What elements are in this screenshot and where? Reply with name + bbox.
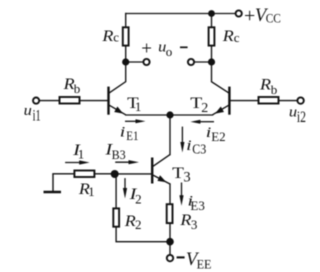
label -VEE: [177, 250, 212, 271]
node junction dot bottom rail: [166, 238, 174, 246]
current arrow iE1: [125, 119, 146, 123]
resistor Rb (left): [60, 97, 80, 104]
label T1: [127, 93, 141, 114]
wire T2 base to Rb: [230, 100, 257, 102]
label T2: [190, 93, 208, 116]
svg-text:c: c: [234, 30, 240, 45]
svg-text:1: 1: [135, 99, 142, 114]
svg-text:E2: E2: [211, 129, 225, 144]
node junction dot common emitters: [166, 111, 173, 118]
svg-text:i: i: [186, 138, 192, 154]
label R2: [124, 211, 142, 232]
node junction dot right collector: [208, 58, 215, 65]
current arrow I1: [65, 160, 90, 164]
svg-text:R: R: [101, 26, 113, 45]
wire R3 bottom to rail node: [169, 224, 171, 242]
svg-text:i: i: [120, 124, 126, 140]
label iE2: [206, 125, 226, 144]
current arrow IB3: [115, 160, 139, 164]
wire node A to T3 base: [115, 173, 152, 175]
wire T2 collector: [212, 62, 229, 93]
current arrow iC3: [180, 127, 184, 153]
svg-text:CC: CC: [266, 10, 281, 25]
svg-text:u: u: [289, 105, 297, 121]
label +VCC: [244, 5, 281, 27]
terminal +VCC: [236, 10, 242, 16]
wire ground to R1: [53, 173, 73, 175]
svg-text:u: u: [24, 103, 32, 119]
svg-text:o: o: [166, 44, 173, 59]
terminal -VEE: [167, 255, 173, 261]
wire right Rc bottom lead: [211, 46, 213, 62]
svg-text:i2: i2: [297, 109, 306, 126]
transistor T2: [213, 87, 230, 115]
resistor Rc (left): [123, 27, 129, 45]
svg-text:3: 3: [191, 217, 198, 232]
terminal uo minus: [188, 59, 194, 65]
label ui2: [289, 105, 306, 127]
label iE3: [188, 194, 205, 214]
label Rb right: [259, 74, 277, 97]
resistor R1: [74, 171, 94, 178]
terminal ui2: [297, 97, 303, 103]
svg-text:2: 2: [201, 101, 208, 116]
wire Rb to ui2 terminal: [279, 100, 297, 102]
ground: [44, 174, 62, 192]
svg-text:1: 1: [78, 146, 85, 161]
svg-text:E3: E3: [190, 198, 204, 213]
transistor T3: [152, 155, 170, 184]
label ui1: [24, 103, 41, 125]
svg-text:B3: B3: [112, 147, 126, 162]
resistor Rc (right): [209, 27, 215, 45]
label Rb left: [62, 74, 80, 96]
terminal uo plus: [143, 59, 149, 65]
terminal ui1: [33, 98, 39, 104]
wire left Rc top lead: [125, 14, 127, 28]
wire R1 to node A: [95, 173, 114, 175]
svg-text:R: R: [222, 26, 234, 45]
svg-text:b: b: [271, 82, 278, 97]
label I2: [128, 184, 141, 207]
wire T1 emitter to common node: [126, 114, 170, 116]
svg-text:C3: C3: [192, 143, 206, 158]
wire right output tap: [194, 61, 212, 63]
svg-text:2: 2: [135, 217, 142, 232]
label uo: [158, 40, 172, 59]
svg-text:c: c: [113, 30, 119, 45]
node junction dot left collector: [122, 58, 129, 65]
label IB3: [104, 140, 126, 163]
label T3: [172, 163, 190, 186]
svg-text:1: 1: [88, 184, 95, 199]
wire Rb to T1 base: [80, 100, 107, 102]
svg-text:T: T: [172, 163, 184, 182]
resistor Rb (right): [259, 97, 279, 104]
current arrow iE2: [190, 120, 214, 124]
node junction dot on top rail: [208, 10, 215, 17]
wire top rail: [126, 13, 236, 15]
svg-text:+: +: [141, 39, 152, 60]
label R1: [78, 179, 95, 199]
wire node A down to R2: [115, 174, 117, 208]
wire common node down to T3 collector: [169, 115, 171, 155]
svg-text:R: R: [179, 210, 191, 229]
svg-text:E1: E1: [126, 128, 138, 143]
current arrow iE3: [179, 183, 183, 206]
svg-text:R: R: [259, 74, 271, 93]
label R3: [179, 210, 197, 232]
label iE1: [120, 124, 139, 143]
svg-text:2: 2: [135, 192, 142, 207]
label Rc right: [222, 26, 240, 45]
wire VEE terminal lead: [169, 242, 171, 255]
resistor R3: [167, 204, 173, 223]
current arrow I2: [123, 178, 127, 198]
wire T3 emitter down to R3: [169, 184, 171, 204]
label iC3: [186, 138, 206, 158]
svg-text:+: +: [244, 5, 255, 27]
wire T1 collector: [109, 62, 126, 93]
node A junction dot at T3 base: [111, 170, 119, 178]
wire left output tap: [126, 61, 144, 63]
wire ui1 terminal to Rb: [39, 100, 58, 102]
svg-text:i1: i1: [33, 108, 41, 125]
wire left Rc bottom lead: [125, 46, 127, 62]
svg-text:b: b: [74, 81, 81, 96]
label Rc left: [101, 26, 119, 45]
wire R2 bottom to bottom rail: [116, 227, 170, 242]
wire T2 emitter to common node: [170, 114, 213, 116]
svg-text:3: 3: [183, 170, 190, 186]
resistor R2: [113, 208, 119, 226]
label I1: [72, 140, 84, 161]
label minus uo polarity: [180, 46, 188, 48]
wire right Rc top lead: [211, 14, 213, 28]
transistor T1: [109, 87, 126, 115]
svg-text:EE: EE: [197, 257, 212, 272]
